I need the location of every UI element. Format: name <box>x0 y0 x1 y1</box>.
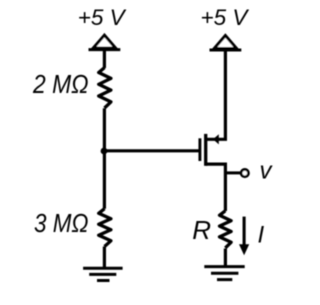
svg-text:3 MΩ: 3 MΩ <box>34 208 89 238</box>
wire: right supply down to drain lead of Q1 <box>206 50 225 139</box>
power supply symbol left (+5V) <box>89 35 121 49</box>
power supply symbol right (+5V) <box>210 36 242 51</box>
svg-text:I: I <box>257 222 264 249</box>
svg-text:+5 V: +5 V <box>200 5 249 30</box>
wire: source lead down to resistor R <box>206 164 226 211</box>
transistor Q1 gate bar <box>198 138 201 161</box>
svg-text:+5 V: +5 V <box>78 5 127 30</box>
wire: left rail from 2M to 3M <box>103 108 106 209</box>
transistor Q1 channel bar <box>204 134 207 166</box>
wire: left supply to 2M resistor <box>103 50 106 68</box>
svg-text:2 MΩ: 2 MΩ <box>32 69 88 99</box>
output terminal circle <box>241 169 248 176</box>
wire: 3M to ground <box>103 247 106 268</box>
wire: R to ground <box>224 249 227 267</box>
resistor R <box>220 211 232 248</box>
resistor R2 3 MΩ <box>99 209 111 247</box>
svg-text:v: v <box>260 158 274 185</box>
wire: gate wire to MOSFET <box>104 149 198 152</box>
resistor R1 2 MΩ <box>99 68 111 108</box>
junction node at gate wire <box>101 148 108 155</box>
wire: output stub <box>225 171 240 174</box>
current arrow I (down) <box>243 217 246 246</box>
svg-text:R: R <box>192 215 211 245</box>
ground right <box>204 267 244 280</box>
transistor Q1 drain arrow (points left) <box>213 134 219 144</box>
ground left <box>83 268 123 280</box>
